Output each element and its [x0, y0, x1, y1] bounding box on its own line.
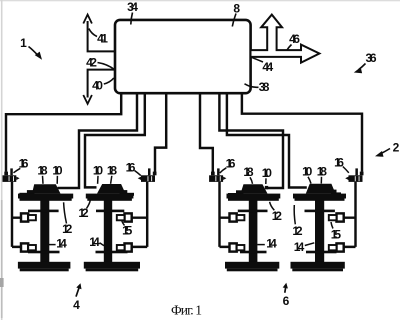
- wire to down-arrow 40: [88, 70, 116, 98]
- svg-text:40: 40: [92, 78, 103, 92]
- leader 34: [131, 13, 133, 25]
- leader 18 (wheel 4): [320, 177, 322, 184]
- wire M3: block to motor 16 of wheel 3: [200, 93, 213, 173]
- wire M2: block to motor 16 of wheel 2: [155, 93, 166, 173]
- wire R1: block to brake of wheel 3: [219, 93, 283, 189]
- leader 12 (wheel 4): [294, 205, 295, 224]
- svg-text:12: 12: [272, 209, 283, 223]
- leader 10 (wheel 1): [56, 176, 58, 184]
- svg-text:36: 36: [366, 51, 377, 65]
- axle 14 (wheel 4): [315, 195, 324, 263]
- svg-text:15: 15: [331, 227, 342, 241]
- svg-text:18: 18: [37, 163, 48, 177]
- svg-text:10: 10: [302, 164, 313, 178]
- wire R2: block to brake of wheel 4: [227, 93, 307, 188]
- svg-text:10: 10: [262, 166, 273, 180]
- wheel web top bar 12 (wheel 3): [227, 194, 281, 199]
- wheel web top bar 12 (wheel 2): [86, 194, 134, 199]
- svg-text:8: 8: [233, 1, 240, 15]
- upper flange line (wheel 3): [238, 210, 268, 213]
- wire L2: block to brake of wheel 2: [85, 93, 145, 188]
- lower flange line (wheel 3): [240, 251, 267, 254]
- leader 16 (wheel 3): [220, 168, 227, 173]
- leader 41: [89, 29, 97, 37]
- svg-text:18: 18: [317, 164, 328, 178]
- svg-text:38: 38: [259, 80, 270, 94]
- axle 14 (wheel 3): [249, 195, 258, 263]
- brake caliper A (wheel 4): [337, 213, 344, 221]
- brake disc 10/18 (wheel 2): [97, 184, 126, 194]
- bottom wheel bar (wheel 3): [225, 262, 279, 269]
- svg-text:18: 18: [243, 165, 254, 179]
- axle 14 (wheel 2): [104, 195, 112, 263]
- leader 44: [252, 57, 264, 62]
- svg-text:14: 14: [266, 236, 277, 250]
- svg-text:10: 10: [52, 163, 63, 177]
- leader 10 (wheel 2): [97, 176, 99, 184]
- brake caliper A (wheel 1): [21, 213, 28, 221]
- leader 16 (wheel 4): [343, 167, 349, 173]
- upper flange line (wheel 1): [28, 210, 59, 213]
- brake caliper A (wheel 3): [230, 213, 237, 221]
- lower flange line (wheel 1): [28, 251, 60, 254]
- wheel assembly 3: [209, 168, 280, 271]
- caliper stub wires (wheel 4): [344, 218, 356, 247]
- svg-text:16: 16: [126, 160, 136, 174]
- leader 10 (wheel 3): [265, 178, 267, 184]
- scan artifact: grey blob: [0, 278, 4, 287]
- brake disc 10/18 (wheel 3): [241, 184, 268, 193]
- scan artifact: left edge line: [1, 0, 3, 320]
- label 4 with arrow: [76, 286, 80, 297]
- scan artifact: top edge line: [0, 0, 400, 1]
- lower flange line (wheel 4): [306, 251, 337, 254]
- leader 12 (wheel 3): [270, 202, 275, 211]
- svg-text:16: 16: [226, 156, 236, 170]
- label 6 with arrow: [285, 285, 286, 293]
- caliper stub wires (wheel 2): [132, 218, 148, 247]
- wheel assembly 4: [291, 168, 364, 271]
- wheel web top bar 12 (wheel 1): [18, 194, 73, 199]
- lower flange line (wheel 2): [96, 251, 128, 254]
- leader 15 (wheel 4): [331, 222, 333, 229]
- leader 46: [287, 45, 292, 51]
- brake caliper B (wheel 1): [21, 243, 28, 251]
- motor 16 (wheel 3): [209, 168, 226, 182]
- svg-text:6: 6: [283, 294, 290, 308]
- brake caliper A (wheel 2): [125, 213, 132, 221]
- leader 15 (wheel 2): [122, 221, 125, 226]
- leader 12 (wheel 2): [87, 200, 91, 208]
- brake caliper B (wheel 3): [230, 243, 237, 251]
- caliper stub wires (wheel 3): [220, 218, 231, 247]
- leader 12 (wheel 1): [64, 202, 67, 223]
- svg-text:Фиг. 1: Фиг. 1: [171, 303, 202, 318]
- scan artifact: left edge darker segment: [1, 200, 3, 318]
- leader 38: [245, 84, 259, 88]
- bottom wheel bar (wheel 1): [18, 262, 71, 269]
- upper flange line (wheel 4): [305, 210, 335, 213]
- arrowhead 41: [83, 15, 92, 24]
- svg-text:12: 12: [62, 222, 73, 236]
- hollow output arrows 46 (up + right merged): [251, 15, 320, 63]
- bottom wheel bar (wheel 2): [84, 262, 140, 269]
- leader 42: [98, 63, 115, 70]
- svg-text:14: 14: [89, 235, 100, 249]
- wire M1: block to motor 16 of wheel 1: [6, 93, 121, 172]
- leader 18 (wheel 3): [250, 177, 253, 184]
- svg-text:14: 14: [294, 240, 305, 254]
- wheel web top bar 12 (wheel 4): [293, 194, 346, 199]
- svg-text:1: 1: [20, 36, 27, 50]
- leader 40: [104, 78, 114, 84]
- upper flange line (wheel 2): [96, 210, 124, 213]
- motor output wire (wheel 4): [354, 182, 356, 247]
- svg-text:12: 12: [292, 224, 303, 238]
- motor 16 (wheel 2): [138, 168, 157, 182]
- brake caliper B (wheel 4): [337, 243, 344, 251]
- arrow for label 1: [29, 47, 39, 57]
- leader 18 (wheel 1): [42, 176, 45, 184]
- brake disc 10/18 (wheel 4): [306, 184, 336, 194]
- leader 14 (wheel 3): [257, 244, 265, 246]
- svg-text:4: 4: [73, 298, 80, 312]
- control unit block 8/34: [115, 20, 251, 93]
- svg-text:10: 10: [93, 163, 104, 177]
- motor 16 (wheel 1): [2, 168, 19, 182]
- arrow for label 2: [381, 149, 391, 154]
- leader 8: [232, 14, 236, 27]
- leader 16 (wheel 1): [14, 168, 21, 173]
- bottom wheel bar (wheel 4): [291, 262, 345, 269]
- svg-text:42: 42: [86, 55, 97, 69]
- svg-text:46: 46: [289, 32, 300, 46]
- axle 14 (wheel 1): [40, 195, 49, 263]
- svg-text:34: 34: [127, 0, 138, 14]
- wire M4: block to motor 16 of wheel 4: [242, 93, 362, 172]
- caliper stub wires (wheel 1): [12, 218, 22, 247]
- svg-text:14: 14: [56, 236, 67, 250]
- leader 10 (wheel 4): [308, 177, 311, 184]
- svg-text:41: 41: [97, 31, 108, 45]
- wire to up-arrow 41: [88, 21, 116, 51]
- arrowhead 40: [83, 95, 92, 104]
- leader 14 (wheel 1): [49, 244, 56, 246]
- svg-text:18: 18: [107, 163, 118, 177]
- leader 14 (wheel 4): [305, 243, 315, 246]
- leader 14 (wheel 2): [100, 243, 105, 246]
- leader 18 (wheel 2): [111, 176, 112, 184]
- svg-text:2: 2: [393, 140, 400, 154]
- motor output wire (wheel 3): [218, 182, 220, 247]
- brake disc 10/18 (wheel 1): [32, 184, 61, 193]
- wire L1: block to brake of wheel 1: [58, 93, 138, 189]
- brake caliper B (wheel 2): [125, 243, 132, 251]
- motor output wire (wheel 2): [146, 182, 148, 247]
- motor output wire (wheel 1): [11, 182, 13, 247]
- arrow for label 36: [359, 64, 366, 70]
- wheel assembly 1: [2, 168, 73, 271]
- leader 16 (wheel 2): [135, 171, 141, 176]
- motor 16 (wheel 4): [345, 168, 363, 182]
- svg-text:44: 44: [262, 60, 273, 74]
- wheel assembly 2: [84, 168, 157, 271]
